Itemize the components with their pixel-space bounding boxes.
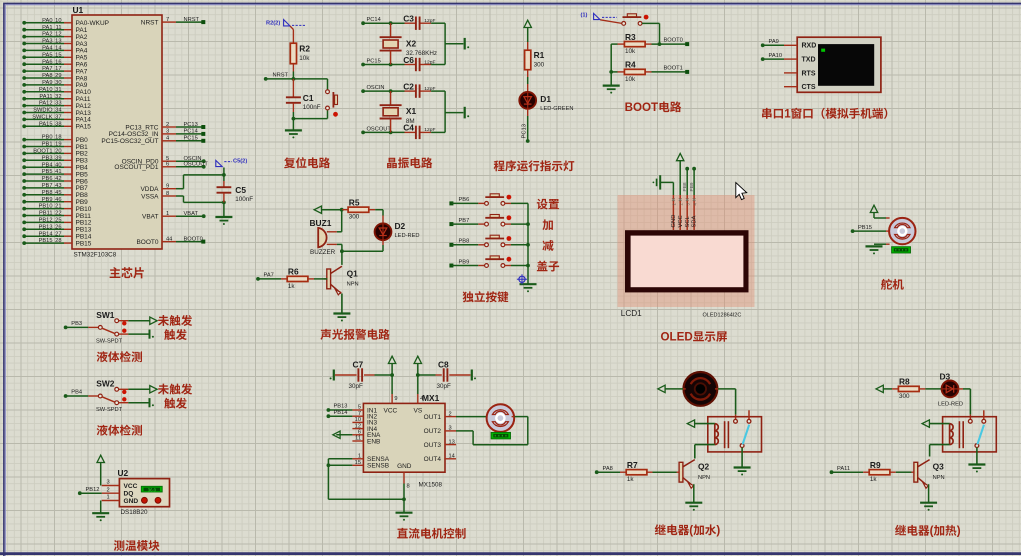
svg-text:SWCLK: SWCLK (32, 115, 52, 121)
svg-text:PA3: PA3 (42, 39, 52, 45)
svg-text:NPN: NPN (698, 475, 710, 481)
svg-text:5: 5 (358, 405, 361, 411)
svg-text:12: 12 (55, 32, 61, 38)
svg-text:C5: C5 (235, 185, 246, 195)
svg-text:1: 1 (358, 454, 361, 460)
svg-text:VCC: VCC (678, 215, 684, 227)
svg-text:39: 39 (55, 155, 61, 161)
svg-text:BOOT1: BOOT1 (33, 149, 52, 155)
svg-text:46: 46 (55, 197, 61, 203)
svg-text:29: 29 (55, 73, 61, 79)
svg-text:1: 1 (784, 108, 791, 121)
svg-text:C2: C2 (403, 81, 414, 91)
svg-text:PA5: PA5 (42, 52, 52, 58)
svg-text:): ) (716, 524, 720, 537)
svg-text:30: 30 (55, 80, 61, 86)
svg-text:300: 300 (534, 61, 545, 68)
svg-text:D1: D1 (540, 94, 551, 104)
svg-text:NRST: NRST (273, 73, 289, 79)
svg-text:6: 6 (166, 162, 169, 168)
svg-text:(: ( (930, 525, 934, 538)
svg-text:12pF: 12pF (424, 127, 435, 133)
svg-text:C4: C4 (403, 123, 414, 133)
svg-text:SW-SPDT: SW-SPDT (96, 338, 123, 344)
svg-text:BOOT: BOOT (625, 101, 659, 114)
svg-text:VCC: VCC (124, 483, 138, 490)
svg-text:C5(2): C5(2) (233, 159, 247, 165)
svg-text:9: 9 (394, 396, 397, 402)
svg-text:PA4: PA4 (42, 46, 52, 52)
svg-text:PA8: PA8 (42, 73, 52, 79)
svg-text:PB14: PB14 (334, 410, 348, 416)
svg-text:(: ( (689, 524, 693, 537)
svg-text:RXD: RXD (802, 43, 817, 50)
svg-text:Q1: Q1 (347, 268, 359, 278)
svg-text:20: 20 (55, 149, 61, 155)
svg-text:BOOT1: BOOT1 (664, 66, 683, 72)
svg-text:OUT4: OUT4 (424, 456, 442, 463)
svg-text:300: 300 (349, 214, 360, 221)
svg-text:37: 37 (55, 115, 61, 121)
svg-text:PB14: PB14 (39, 231, 53, 237)
svg-text:D2: D2 (395, 221, 406, 231)
svg-text:8: 8 (407, 484, 410, 490)
svg-text:LED-RED: LED-RED (395, 233, 420, 239)
svg-text:STM32F103C8: STM32F103C8 (74, 252, 117, 259)
svg-text:15: 15 (55, 52, 61, 58)
svg-text:3: 3 (166, 129, 169, 135)
svg-text:PA15: PA15 (76, 124, 92, 131)
svg-text:OUT1: OUT1 (424, 414, 442, 421)
svg-text:21: 21 (55, 204, 61, 210)
svg-text:PB11: PB11 (39, 211, 53, 217)
svg-text:OUT2: OUT2 (424, 428, 442, 435)
svg-text:OSCOUT_PD1: OSCOUT_PD1 (114, 164, 158, 171)
svg-text:PA9: PA9 (769, 39, 779, 45)
svg-text:PB10: PB10 (39, 204, 53, 210)
svg-text:13: 13 (55, 39, 61, 45)
svg-text:PA11: PA11 (39, 94, 52, 100)
svg-text:PA10: PA10 (769, 53, 783, 59)
svg-text:R6: R6 (288, 267, 299, 277)
svg-text:13: 13 (449, 439, 455, 445)
svg-text:10k: 10k (625, 48, 636, 55)
svg-text:6: 6 (358, 430, 361, 436)
svg-text:R5: R5 (349, 198, 360, 208)
svg-text:R2(2): R2(2) (266, 20, 280, 26)
svg-text:PB15: PB15 (39, 238, 53, 244)
svg-text:Q3: Q3 (933, 462, 945, 472)
svg-text:100nF: 100nF (235, 196, 253, 203)
svg-text:BUZ1: BUZ1 (310, 218, 332, 228)
svg-text:41: 41 (55, 169, 61, 175)
svg-text:34: 34 (55, 108, 61, 114)
svg-text:7: 7 (358, 411, 361, 417)
svg-text:12: 12 (355, 423, 361, 429)
svg-text:PB8: PB8 (459, 239, 470, 245)
svg-text:PA6: PA6 (42, 59, 52, 65)
svg-text:PA12: PA12 (39, 101, 53, 107)
svg-text:VBAT: VBAT (142, 214, 159, 221)
svg-text:1: 1 (107, 495, 110, 501)
svg-text:PB3: PB3 (42, 155, 53, 161)
svg-text:R8: R8 (899, 377, 910, 387)
svg-text:SDA: SDA (692, 215, 698, 227)
svg-text:38: 38 (55, 121, 61, 127)
svg-text:RTS: RTS (802, 70, 816, 77)
svg-text:32: 32 (55, 94, 61, 100)
svg-text:OLED: OLED (661, 331, 693, 344)
svg-text:PB12: PB12 (39, 218, 53, 224)
svg-text:GND: GND (397, 463, 412, 470)
svg-text:26: 26 (55, 224, 61, 230)
svg-text:PA0: PA0 (42, 18, 52, 24)
svg-text:43: 43 (55, 183, 61, 189)
svg-text:PB15: PB15 (76, 240, 92, 247)
svg-text:36.0: 36.0 (148, 487, 157, 492)
svg-text:VBAT: VBAT (184, 211, 199, 217)
svg-text:3: 3 (449, 426, 452, 432)
svg-text:PB8: PB8 (42, 190, 53, 196)
svg-text:LCD1: LCD1 (621, 309, 642, 318)
svg-text:10k: 10k (625, 76, 636, 83)
svg-text:7: 7 (166, 17, 169, 23)
svg-text:SW1: SW1 (96, 310, 114, 320)
svg-text:17: 17 (55, 66, 61, 72)
svg-text:28: 28 (55, 238, 61, 244)
svg-text:C6: C6 (403, 55, 414, 65)
svg-text:PA15: PA15 (39, 121, 53, 127)
svg-text:PB5: PB5 (42, 169, 53, 175)
svg-text:14: 14 (55, 46, 61, 52)
svg-text:PA9: PA9 (42, 80, 52, 86)
svg-text:4: 4 (166, 136, 169, 142)
svg-text:PB13: PB13 (334, 404, 348, 410)
svg-text:PB6: PB6 (42, 176, 53, 182)
svg-text:1k: 1k (288, 283, 296, 290)
svg-text:C8: C8 (438, 360, 449, 370)
svg-text:100nF: 100nF (303, 104, 321, 111)
svg-text:PA2: PA2 (42, 32, 52, 38)
svg-text:U2: U2 (118, 468, 129, 478)
svg-text:OUT3: OUT3 (424, 442, 442, 449)
svg-text:BOOT0: BOOT0 (136, 239, 158, 246)
svg-text:PC13: PC13 (522, 124, 528, 139)
svg-text:LED-RED: LED-RED (938, 401, 963, 407)
svg-text:CTS: CTS (802, 84, 816, 91)
svg-text:19: 19 (55, 142, 61, 148)
svg-text:2: 2 (107, 487, 110, 493)
svg-text:SW-SPDT: SW-SPDT (96, 407, 123, 413)
svg-text:PC15-OSC32_OUT: PC15-OSC32_OUT (101, 138, 158, 145)
svg-text:PB0: PB0 (42, 135, 53, 141)
svg-text:MX1: MX1 (422, 393, 440, 403)
svg-text:11: 11 (56, 25, 62, 31)
svg-text:PA10: PA10 (39, 87, 53, 93)
svg-text:10k: 10k (299, 55, 310, 62)
svg-text:PA7: PA7 (264, 273, 274, 279)
svg-text:BOOT0: BOOT0 (664, 38, 683, 44)
svg-text:(1): (1) (581, 13, 588, 19)
svg-text:PA8: PA8 (603, 466, 613, 472)
svg-text:1k: 1k (870, 476, 878, 483)
svg-text:NRST: NRST (184, 17, 200, 23)
svg-text:10: 10 (355, 417, 361, 423)
svg-text:PC13: PC13 (184, 122, 198, 128)
svg-text:VSSA: VSSA (141, 193, 159, 200)
svg-text:NPN: NPN (347, 282, 359, 288)
svg-text:OLED12864I2C: OLED12864I2C (703, 312, 742, 318)
svg-text:PB9: PB9 (42, 197, 53, 203)
svg-text:PB8: PB8 (682, 182, 688, 191)
svg-text:18: 18 (55, 135, 61, 141)
svg-text:R1: R1 (534, 50, 545, 60)
svg-text:R7: R7 (627, 460, 638, 470)
svg-text:3: 3 (107, 480, 110, 486)
svg-text:ENB: ENB (367, 438, 380, 445)
svg-text:PB15: PB15 (858, 225, 872, 231)
svg-text:DQ: DQ (124, 491, 134, 498)
svg-text:PC15: PC15 (184, 136, 198, 142)
svg-text:PB1: PB1 (42, 142, 53, 148)
svg-text:PB9: PB9 (689, 182, 695, 191)
svg-text:PA7: PA7 (42, 66, 52, 72)
svg-text:30pF: 30pF (349, 383, 364, 390)
svg-text:OSCOUT: OSCOUT (367, 126, 392, 132)
svg-text:12pF: 12pF (424, 86, 435, 92)
svg-text:12pF: 12pF (424, 18, 435, 24)
svg-text:33: 33 (55, 101, 61, 107)
svg-text:10: 10 (55, 18, 61, 24)
svg-text:R9: R9 (870, 460, 881, 470)
svg-text:SENSB: SENSB (367, 463, 389, 470)
svg-text:BUZZER: BUZZER (310, 249, 336, 256)
svg-text:X1: X1 (406, 106, 417, 116)
svg-text:15: 15 (355, 460, 361, 466)
svg-text:U1: U1 (73, 5, 84, 15)
svg-text:1: 1 (166, 211, 169, 217)
svg-text:PB9: PB9 (459, 259, 470, 265)
svg-text:27: 27 (55, 231, 61, 237)
svg-text:BOOT0: BOOT0 (184, 236, 203, 242)
svg-text:42: 42 (55, 176, 61, 182)
svg-text:Q2: Q2 (698, 462, 710, 472)
svg-text:16: 16 (55, 59, 61, 65)
svg-text:300: 300 (899, 393, 910, 400)
svg-text:VDDA: VDDA (140, 186, 159, 193)
svg-text:22: 22 (55, 211, 61, 217)
svg-text:PB6: PB6 (459, 197, 470, 203)
svg-text:44: 44 (166, 236, 172, 242)
svg-text:PB4: PB4 (42, 162, 53, 168)
svg-text:PB13: PB13 (39, 224, 53, 230)
svg-text:C7: C7 (353, 360, 364, 370)
svg-text:11: 11 (355, 436, 361, 442)
svg-text:PB7: PB7 (42, 183, 53, 189)
svg-text:R2: R2 (299, 43, 310, 53)
svg-text:DS18B20: DS18B20 (121, 509, 148, 516)
svg-text:2: 2 (449, 411, 452, 417)
svg-text:R4: R4 (625, 60, 636, 70)
svg-text:PA11: PA11 (837, 466, 850, 472)
svg-text:VCC: VCC (384, 407, 398, 414)
svg-text:30pF: 30pF (437, 383, 452, 390)
svg-text:OSCOUT: OSCOUT (184, 162, 209, 168)
svg-text:C3: C3 (403, 14, 414, 24)
svg-text:): ) (957, 525, 961, 538)
svg-text:VS: VS (414, 407, 423, 414)
svg-text:GND: GND (671, 215, 677, 228)
svg-text:X2: X2 (406, 38, 417, 48)
svg-text:45: 45 (55, 190, 61, 196)
svg-text:1k: 1k (627, 476, 635, 483)
svg-text:NRST: NRST (141, 19, 159, 26)
svg-text:R3: R3 (625, 32, 636, 42)
svg-text:PB3: PB3 (71, 321, 82, 327)
svg-text:PB12: PB12 (86, 487, 100, 493)
svg-text:GND: GND (124, 498, 139, 505)
svg-text:2: 2 (166, 122, 169, 128)
svg-text:12pF: 12pF (424, 59, 435, 65)
svg-text:SCL: SCL (685, 215, 691, 227)
svg-text:TXD: TXD (802, 57, 816, 64)
svg-text:PC14: PC14 (184, 129, 198, 135)
svg-text:SW2: SW2 (96, 378, 114, 388)
svg-text:PC15: PC15 (367, 59, 381, 65)
svg-text:PA1: PA1 (42, 25, 52, 31)
svg-text:C1: C1 (303, 93, 314, 103)
svg-text:PB7: PB7 (459, 218, 470, 224)
svg-text:NPN: NPN (933, 475, 945, 481)
svg-text:4: 4 (420, 396, 423, 402)
svg-text:SWDIO: SWDIO (33, 108, 53, 114)
svg-text:MX1508: MX1508 (419, 482, 443, 489)
svg-text:25: 25 (55, 218, 61, 224)
svg-text:OSCIN: OSCIN (367, 85, 385, 91)
svg-text:PB4: PB4 (71, 390, 82, 396)
svg-text:LED-GREEN: LED-GREEN (540, 106, 573, 112)
svg-text:D3: D3 (940, 372, 951, 382)
svg-text:40: 40 (55, 162, 61, 168)
svg-text:14: 14 (449, 454, 455, 460)
svg-text:PC14: PC14 (367, 17, 381, 23)
svg-text:31: 31 (55, 87, 61, 93)
